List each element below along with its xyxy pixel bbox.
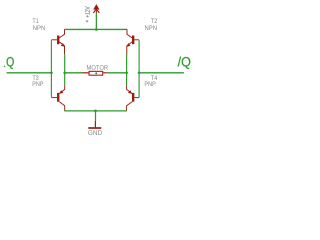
label PNP (T4) [145,81,156,85]
label origin cross Q [4,66,6,68]
transistor T2 (NPN, top right, mirrored) [127,30,140,55]
junction /Q / right base rail [138,71,141,74]
label +12V [85,6,89,17]
label GND [88,130,102,135]
junction Q / left base rail [50,71,53,74]
label T1 [33,18,39,22]
origin cross of +12V symbol [86,20,88,22]
wire Q lead [7,72,52,74]
wire left emitter rail [64,54,66,85]
wire motor left lead [65,72,83,74]
junction bottom rail / GND stem [94,110,97,113]
label NPN (T1) [33,25,45,29]
junction motor-left / left emitter rail [63,71,66,74]
wire right emitter rail [126,55,128,86]
label T3 [33,75,39,80]
supply +12V symbol [93,5,99,14]
junction top rail / power stem [95,28,98,31]
wire GND stem [95,111,97,121]
junction motor-right / right emitter rail [125,71,128,74]
transistor T1 (NPN, top left) [51,30,64,55]
wire right base rail (/Q net vertical) [138,40,140,97]
wire top rail (+12V rail) [64,28,127,30]
label T2 [151,18,157,23]
net label Q [7,57,14,69]
wire power stem [95,14,97,30]
label PNP (T3) [33,81,44,85]
net label /Q [178,57,191,69]
label MOTOR [87,65,108,70]
wire /Q lead [139,72,184,74]
label NPN (T2) [145,25,157,29]
wire left base rail (Q net vertical) [50,40,52,97]
wire bottom rail (GND rail) [64,110,127,112]
label T4 [151,75,157,79]
transistor T3 (PNP, bottom left) [51,86,64,111]
wire motor right lead [107,72,127,74]
resistor MOTOR [82,71,106,75]
transistor T4 (PNP, bottom right, mirrored) [127,86,140,111]
ground GND symbol [88,121,101,128]
